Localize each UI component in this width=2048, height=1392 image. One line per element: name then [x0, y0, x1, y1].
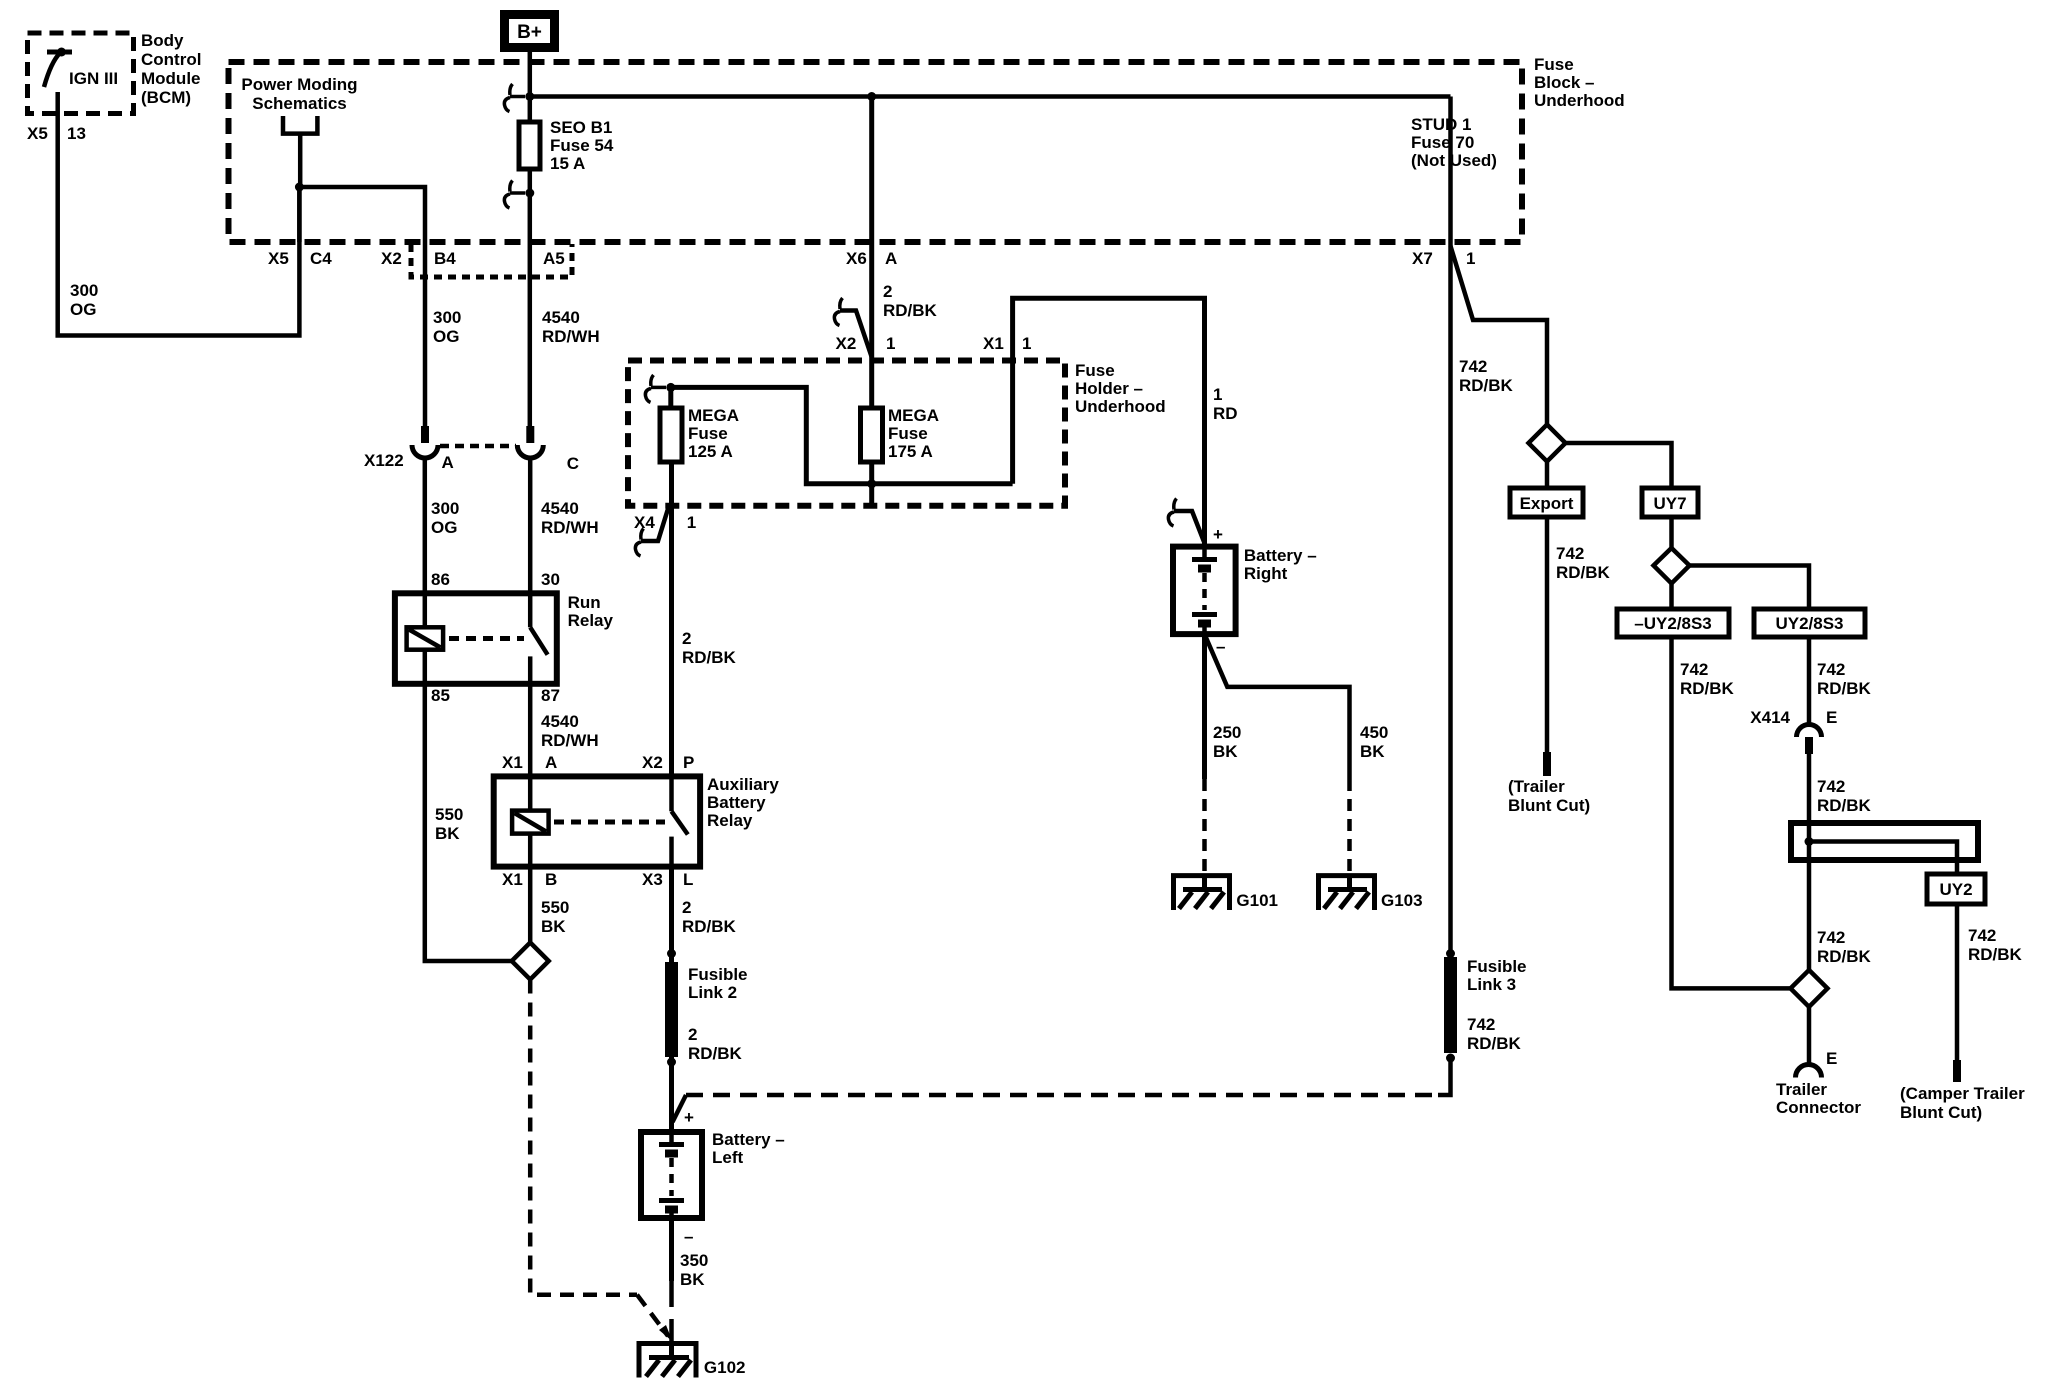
svg-text:550BK: 550BK: [435, 805, 463, 843]
wire B+ down to bus: [528, 52, 533, 122]
svg-text:13: 13: [67, 124, 86, 143]
battery Battery-Left box: [641, 1132, 702, 1218]
svg-text:–UY2/8S3: –UY2/8S3: [1634, 614, 1712, 633]
fuse MEGA 175A: [861, 408, 883, 462]
wire pin 87 down to aux relay X1-A: [528, 684, 533, 777]
splice diamond 1 (export tree): [1529, 425, 1566, 462]
bus wire horizontal to STUD1: [530, 94, 1451, 99]
connector X414 wire end: [1805, 737, 1813, 754]
blunt cut end (camper trailer): [1953, 1060, 1961, 1082]
fuse holder underhood dashed box: [628, 361, 1065, 506]
power feed B+ box: [505, 15, 555, 48]
diagonal tap to long dashed jumper: [673, 1095, 687, 1122]
svg-text:450BK: 450BK: [1360, 723, 1388, 761]
blunt cut end (trailer): [1543, 752, 1551, 776]
dashed link between X122 halves: [440, 444, 516, 449]
svg-text:1: 1: [1022, 334, 1031, 353]
fuse SEO B1 Fuse 54 15A: [519, 122, 540, 169]
svg-text:A5: A5: [543, 249, 565, 268]
wire inside block to UY2 drop: [1809, 823, 1957, 874]
wire X1-B down to diamond: [528, 867, 533, 943]
svg-text:B: B: [545, 870, 557, 889]
connector X122-A socket arc: [412, 445, 438, 458]
wire diamond1 down to Export: [1545, 462, 1550, 489]
connector X122-C socket arc: [517, 445, 543, 458]
option box -UY2/8S3: [1617, 609, 1729, 637]
ground G102: [639, 1344, 696, 1378]
svg-text:X5: X5: [27, 124, 48, 143]
svg-text:86: 86: [431, 570, 450, 589]
svg-text:G102: G102: [704, 1358, 746, 1377]
switch IGN III (inside BCM): [44, 48, 72, 88]
svg-text:300OG: 300OG: [70, 281, 98, 319]
wire diamond1 right to UY7: [1566, 443, 1672, 488]
svg-text:C4: C4: [310, 249, 332, 268]
wire diagonal branch at X7 to export tree: [1451, 246, 1548, 425]
option box UY2/8S3: [1754, 609, 1865, 637]
svg-text:C: C: [567, 454, 579, 473]
svg-text:E: E: [1826, 1049, 1837, 1068]
run relay coil: [407, 627, 444, 649]
svg-text:E: E: [1826, 708, 1837, 727]
connector leave symbol at X2-1 (hook and diagonal): [834, 298, 871, 357]
splice diamond 3: [1791, 970, 1828, 1007]
battery right internal plates: [1192, 547, 1217, 635]
relay Auxiliary Battery Relay box: [494, 776, 700, 866]
svg-text:–: –: [1216, 637, 1225, 656]
run relay switch (pin 30 to 87): [530, 593, 547, 684]
Power Moding Schematics bracket: [283, 116, 317, 187]
junction node X5-C4 top: [295, 183, 304, 192]
wire from junction right then down through X2-B4: [299, 187, 425, 426]
svg-text:Power ModingSchematics: Power ModingSchematics: [241, 75, 357, 113]
fuse terminal hook below SEO fuse: [504, 181, 525, 209]
option box UY2: [1927, 874, 1985, 904]
svg-text:X2: X2: [836, 334, 857, 353]
svg-text:X1: X1: [983, 334, 1004, 353]
svg-text:550BK: 550BK: [541, 898, 569, 936]
wire -UY2/8S3 down then right to diamond 3: [1672, 637, 1791, 988]
svg-text:+: +: [684, 1108, 694, 1127]
dashed ground path from diamond toward G102: [530, 980, 668, 1337]
wire pin 85 down to diamond splice: [425, 684, 511, 961]
junction dot 125A top: [666, 383, 675, 392]
wire diamond2 down to -UY2/8S3: [1669, 584, 1674, 610]
svg-text:X4: X4: [634, 513, 655, 532]
splice diamond 2: [1654, 548, 1690, 584]
junction block rectangle: [1791, 823, 1978, 860]
junction dot below fuse: [525, 189, 534, 198]
svg-text:1: 1: [687, 513, 696, 532]
junction dot FL3 top: [1446, 949, 1455, 958]
connector X122-A wire end: [421, 426, 429, 443]
svg-text:X3: X3: [642, 870, 663, 889]
svg-text:UY7: UY7: [1653, 494, 1686, 513]
ground G101: [1174, 876, 1230, 910]
svg-text:85: 85: [431, 686, 450, 705]
svg-text:A: A: [442, 453, 454, 472]
svg-text:X414: X414: [1750, 708, 1790, 727]
svg-text:P: P: [683, 753, 694, 772]
svg-text:X1: X1: [502, 870, 523, 889]
fusible link 2: [665, 962, 678, 1057]
svg-text:X7: X7: [1412, 249, 1433, 268]
svg-text:B4: B4: [434, 249, 456, 268]
fuse block underhood dashed box: [229, 62, 1523, 242]
svg-text:A: A: [545, 753, 557, 772]
svg-text:X6: X6: [846, 249, 867, 268]
connector X122-C wire end: [526, 426, 534, 443]
junction dot 175A bottom: [867, 479, 876, 488]
wire block down to diamond 3: [1807, 860, 1812, 970]
wire Export down to trailer blunt cut: [1545, 517, 1550, 753]
wire 125A top hook feed (horizontal, down, to X1 riser): [671, 298, 1205, 546]
fuse terminal hook at B+ junction: [504, 84, 525, 112]
wire X3-L down to fusible link 2: [669, 867, 674, 962]
svg-text:300OG: 300OG: [431, 499, 459, 537]
svg-text:350BK: 350BK: [680, 1251, 708, 1289]
run relay coil wire (pin 86 to 85 through coil): [423, 593, 428, 684]
battery left internal plates: [659, 1132, 684, 1218]
wire 175A bottom stub: [869, 462, 874, 506]
junction dot inside block: [1805, 837, 1814, 846]
junction dot at B+ bus: [525, 92, 534, 101]
svg-text:+: +: [1213, 525, 1223, 544]
svg-text:30: 30: [541, 570, 560, 589]
wire 125A fuse to bottom of holder: [668, 387, 673, 408]
BCM dashed box: [28, 33, 134, 114]
aux relay coil wire: [528, 776, 533, 866]
wire UY2 down to camper blunt cut: [1955, 904, 1960, 1060]
wire 300 OG from X122-A to run relay 86: [423, 458, 428, 593]
wire below fuse through A5 to X122-C: [528, 169, 533, 426]
svg-text:G101: G101: [1236, 891, 1278, 910]
svg-text:X122: X122: [364, 451, 404, 470]
svg-text:X2: X2: [381, 249, 402, 268]
dashed ground lead to G101: [1202, 779, 1207, 875]
ground G103: [1319, 876, 1375, 910]
wire UY2/8S3 down to X414: [1807, 637, 1812, 724]
connector sub-box B4 A5 (small dashes): [411, 244, 572, 277]
wire branch diagonal to 450 BK: [1205, 634, 1350, 779]
connector Trailer Connector arc: [1796, 1065, 1822, 1078]
svg-text:250BK: 250BK: [1213, 723, 1241, 761]
junction dot FL2 bottom: [667, 1058, 676, 1067]
connector X414 socket arc: [1797, 725, 1822, 738]
wire 300 OG from BCM X5-13 down right and up to junction: [58, 92, 300, 336]
fuse terminal hook at 125A top: [645, 375, 666, 402]
relay Run Relay box: [395, 593, 557, 684]
connector leave symbol at X4-1: [635, 504, 669, 556]
svg-text:87: 87: [541, 686, 560, 705]
junction dot X6 branch on bus: [867, 92, 876, 101]
svg-text:1: 1: [886, 334, 895, 353]
svg-text:X1: X1: [502, 753, 523, 772]
wire diamond3 down to trailer connector: [1807, 1007, 1812, 1065]
fusible link 3: [1444, 957, 1457, 1053]
svg-text:X5: X5: [268, 249, 289, 268]
battery Battery-Right box: [1173, 547, 1236, 635]
aux relay switch (X2-P to X3-L): [672, 776, 688, 866]
junction dot FL2 top: [667, 949, 676, 958]
terminal hook at battery right positive: [1168, 499, 1204, 544]
svg-text:Export: Export: [1520, 494, 1574, 513]
wire X6-A down through X2-1 to MEGA fuse 175A: [869, 97, 874, 409]
aux relay actuator dashed line: [554, 820, 665, 825]
svg-text:IGN III: IGN III: [69, 69, 118, 88]
wire battery left minus down 350 BK: [669, 1218, 674, 1281]
wire X414 down to junction block: [1807, 754, 1812, 823]
wire battery right minus down (250 BK): [1202, 634, 1207, 779]
run relay actuator dashed line: [449, 636, 524, 641]
wire STUD1 down from bus to fusible link 3: [1448, 97, 1453, 954]
wire 4540 RD/WH from X122-C to run relay 30: [528, 458, 533, 593]
arrowhead into G102: [659, 1325, 673, 1342]
wire FL2 to battery left positive: [669, 1057, 674, 1132]
option box Export: [1510, 488, 1583, 517]
svg-text:–: –: [684, 1227, 693, 1246]
wire diamond2 right to UY2/8S3: [1690, 566, 1810, 610]
svg-text:UY2/8S3: UY2/8S3: [1775, 614, 1843, 633]
long dashed jumper wire to fusible link 3: [686, 1058, 1451, 1095]
aux relay coil: [512, 811, 549, 834]
svg-text:A: A: [885, 249, 897, 268]
svg-text:L: L: [683, 870, 693, 889]
wire UY7 down to diamond 2: [1669, 517, 1674, 548]
junction dot FL3 bottom: [1446, 1054, 1455, 1063]
fuse MEGA 125A: [660, 408, 682, 462]
svg-text:UY2: UY2: [1939, 880, 1972, 899]
splice diamond (550 BK): [512, 943, 549, 980]
svg-text:G103: G103: [1381, 891, 1423, 910]
svg-text:1: 1: [1466, 249, 1475, 268]
dashed ground lead to G103: [1347, 779, 1352, 875]
svg-text:X2: X2: [642, 753, 663, 772]
option box UY7: [1642, 488, 1698, 517]
svg-text:B+: B+: [517, 22, 542, 43]
svg-text:300OG: 300OG: [433, 308, 461, 346]
dashed segment of 350 BK at ground: [669, 1281, 674, 1343]
